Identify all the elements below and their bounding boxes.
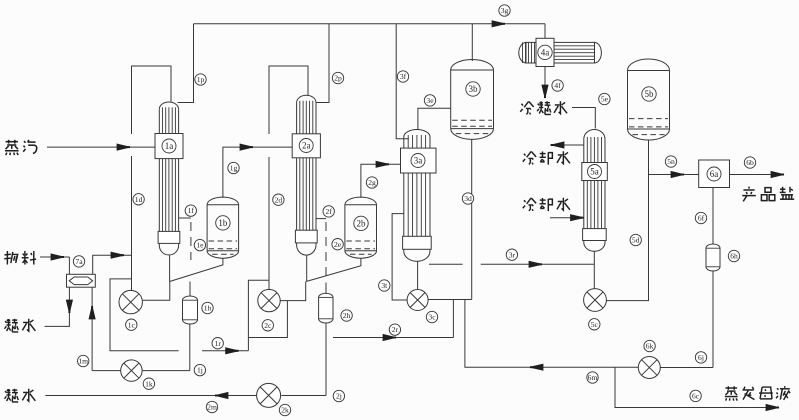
separator 5b bottom drop to pump 5c — [607, 140, 649, 301]
label 3d — [462, 193, 473, 204]
svg-text:2c: 2c — [264, 321, 272, 330]
arrow on vapor header to condenser — [492, 21, 505, 27]
pump 3c — [407, 290, 428, 311]
circulation loop column 2: pump 2c discharge riser — [269, 66, 308, 125]
label 4f — [552, 80, 563, 91]
svg-text:6k: 6k — [646, 342, 654, 351]
svg-text:2g: 2g — [368, 178, 376, 187]
text 冷却水 cooling water upper — [523, 151, 570, 164]
label 1g — [228, 162, 239, 173]
evaporator heater column 1a — [155, 102, 183, 255]
pump 2k — [257, 383, 281, 407]
branch from header to column 2a dome — [316, 24, 330, 103]
svg-text:5n: 5n — [667, 157, 675, 166]
3r arrow — [529, 261, 542, 267]
feed arrow 2 — [111, 252, 124, 258]
text 凝水 condensate lower — [4, 389, 35, 402]
label 3g — [499, 5, 510, 16]
label 1e — [194, 239, 205, 250]
circulation loop column 1: pump 1c discharge riser — [132, 66, 172, 125]
condenser 4a — [519, 38, 602, 66]
vapor line separator 2b to heater 3a — [361, 164, 401, 198]
stub into drum 2h — [325, 283, 327, 294]
label 2f — [323, 206, 334, 217]
separator 3b bottom drop — [471, 140, 473, 300]
crystallizer 6a bottom drop to drum 6h — [712, 188, 714, 245]
pump 1k condensate line — [92, 370, 121, 372]
vapor 1-2 arrow — [240, 144, 253, 150]
mother liquor recycle 6m line — [465, 300, 639, 368]
svg-text:7a: 7a — [75, 257, 83, 266]
label 2e — [332, 239, 343, 250]
condensate down arrow — [66, 300, 72, 313]
label 2c — [262, 320, 273, 331]
evaporated mother liquor outlet line — [615, 368, 779, 408]
label 7a — [73, 256, 84, 267]
label 1d — [133, 194, 144, 205]
label 2m — [206, 401, 217, 412]
pump 5c — [584, 289, 607, 312]
svg-text:2e: 2e — [334, 240, 342, 249]
label 2h — [341, 310, 352, 321]
drum 2h — [319, 293, 333, 323]
svg-text:3c: 3c — [428, 313, 436, 322]
svg-text:1j: 1j — [197, 366, 203, 375]
label 1j — [194, 364, 205, 375]
stub into drum 1h — [189, 282, 191, 297]
evaporator heater column 2a — [292, 95, 320, 255]
svg-text:6j: 6j — [698, 353, 704, 362]
svg-text:1r: 1r — [215, 339, 222, 348]
text 蒸发母液 evaporated mother liquor — [725, 386, 790, 401]
label 1k — [143, 378, 154, 389]
text 产品盐 product salt — [742, 187, 794, 202]
dash below steam crossing — [131, 156, 133, 165]
text 冷却水 cooling water lower — [523, 198, 570, 211]
column 3a bottom drop to pump 3c — [417, 262, 419, 290]
column 3a left drain to pump 3c — [392, 214, 407, 300]
mother liquor arrow — [766, 404, 779, 410]
svg-text:1h: 1h — [204, 304, 212, 313]
label 6h — [728, 250, 739, 261]
heated feed from 7a to loop 1 — [93, 255, 132, 274]
label 5n — [665, 156, 676, 167]
svg-text:1f: 1f — [188, 206, 195, 215]
pump 2c — [258, 289, 280, 311]
cooling water outlet line (upper) — [550, 144, 584, 146]
label 3c — [426, 311, 437, 322]
transfer line 2r riser into header A — [333, 337, 453, 339]
svg-text:5b: 5b — [645, 89, 655, 99]
cooling water out arrow — [551, 142, 564, 148]
label 3r — [506, 249, 517, 260]
svg-text:1e: 1e — [196, 241, 204, 250]
pump 2c suction riser — [280, 282, 306, 301]
preheater 7a — [67, 274, 96, 287]
svg-text:1m: 1m — [78, 357, 88, 366]
svg-text:1b: 1b — [218, 218, 228, 228]
label 2j — [333, 390, 344, 401]
cooling water inlet line (lower) — [550, 217, 584, 219]
text 凝水 condensate upper — [4, 319, 35, 332]
svg-text:3t: 3t — [381, 281, 388, 290]
svg-text:2d: 2d — [275, 195, 283, 204]
pump 1c suction riser — [143, 282, 170, 301]
svg-text:3a: 3a — [414, 156, 423, 166]
separator vessel 2b — [345, 197, 377, 258]
evaporator heater column 5a — [582, 130, 608, 252]
drum 2h bottom drop — [325, 323, 327, 396]
label 5d — [630, 234, 641, 245]
svg-text:3f: 3f — [400, 72, 407, 81]
drum 1h bottom drop — [189, 324, 191, 371]
label 3t — [379, 280, 390, 291]
svg-text:5e: 5e — [601, 95, 609, 104]
svg-text:6a: 6a — [710, 169, 719, 179]
svg-text:5a: 5a — [590, 167, 599, 177]
label 3e — [424, 95, 435, 106]
label 1h — [202, 302, 213, 313]
svg-text:3g: 3g — [501, 6, 509, 15]
text 蒸汽 steam — [5, 140, 37, 155]
crystallizer box 6a — [699, 160, 730, 188]
svg-text:5c: 5c — [591, 320, 599, 329]
label 1c — [126, 319, 137, 330]
svg-text:2b: 2b — [357, 219, 367, 229]
svg-text:2a: 2a — [302, 141, 311, 151]
svg-text:6b: 6b — [746, 158, 754, 167]
drum 1h — [183, 296, 198, 324]
svg-text:2h: 2h — [343, 311, 351, 320]
text 物料 feed — [4, 251, 36, 265]
separator 2b outlet diagonal to pump 2c — [306, 258, 361, 281]
vapor line separator 1b to heater 2a — [223, 147, 292, 198]
label 6j — [695, 352, 706, 363]
label 2g — [366, 177, 377, 188]
svg-text:5d: 5d — [632, 236, 640, 245]
vapor line column 5a top — [572, 108, 595, 129]
drum 6h bottom drop — [712, 271, 714, 368]
loop line down to pump 1c — [131, 165, 133, 291]
dash above steam crossing — [131, 125, 133, 134]
pump 3c discharge header line A — [428, 299, 472, 301]
drum 6h — [706, 244, 720, 271]
svg-text:4a: 4a — [541, 48, 550, 58]
dash below vapor crossing — [268, 157, 270, 166]
svg-text:4f: 4f — [554, 81, 561, 90]
branch: condenser 4a feed drop — [544, 24, 546, 40]
separator vessel 3b — [451, 60, 494, 140]
svg-text:3r: 3r — [509, 250, 516, 259]
label 1p — [195, 74, 206, 85]
6m arrow — [530, 364, 543, 370]
svg-text:6f: 6f — [698, 214, 705, 223]
feed arrow — [51, 254, 64, 260]
svg-text:6m: 6m — [588, 373, 598, 382]
label 6m — [587, 372, 598, 383]
branch from header down to column 3a circulation elbow — [396, 24, 409, 139]
svg-text:6h: 6h — [730, 252, 738, 261]
label 6b — [744, 157, 755, 168]
product salt outlet line — [730, 174, 785, 176]
separator vessel 5b — [628, 59, 670, 140]
column 5a bottom drop to pump 5c — [593, 252, 595, 289]
separator 1b bottom outlet and diagonal to pump 1c suction — [170, 258, 223, 281]
label 2d — [273, 194, 284, 205]
pump 6k suction from 6h drop — [660, 367, 713, 369]
evaporator heater column 3a — [401, 129, 437, 261]
svg-text:2f: 2f — [326, 207, 333, 216]
condensate down arrow 4f — [542, 85, 548, 98]
svg-text:2j: 2j — [336, 392, 342, 401]
column 2a bottom drop — [306, 255, 308, 281]
vapor 2-3 arrow — [376, 161, 389, 167]
label 3f — [397, 71, 408, 82]
product salt arrow — [771, 171, 784, 177]
top vapor header line B — [194, 23, 546, 25]
pump 1k — [121, 360, 142, 381]
2r arrow — [383, 334, 396, 340]
cooling water in arrow — [571, 215, 584, 221]
condensate out arrow — [215, 392, 228, 398]
label 6k — [644, 340, 655, 351]
column 2a condensate elbow with dashed 2e level line — [316, 218, 327, 220]
label 5e — [599, 93, 610, 104]
dash above vapor crossing — [268, 125, 270, 134]
svg-text:1c: 1c — [128, 320, 136, 329]
condensate outlet from 7a — [45, 287, 70, 326]
svg-text:2r: 2r — [392, 325, 399, 334]
separator vessel 1b — [207, 197, 239, 258]
bypass from pump 2c discharge down to 2r line — [248, 301, 287, 338]
svg-text:3d: 3d — [464, 194, 472, 203]
transfer line 3r to column 5a — [429, 263, 463, 265]
label 1m — [78, 355, 89, 366]
label 2r — [389, 324, 400, 335]
condensate header line with pump 2k — [45, 395, 256, 397]
label 5c — [589, 319, 600, 330]
column 1a bottom drop — [169, 255, 171, 281]
svg-text:1g: 1g — [230, 164, 238, 173]
label 6f — [695, 212, 706, 223]
svg-text:3b: 3b — [469, 84, 479, 94]
condenser 4a outlet drop — [544, 65, 546, 89]
branch: vessel 3b top riser — [471, 24, 473, 61]
svg-text:3e: 3e — [426, 96, 434, 105]
svg-text:2m: 2m — [207, 403, 217, 412]
transfer line 1r from loop 1 to loop 2 — [110, 279, 179, 351]
label 1f — [185, 205, 196, 216]
steam feed line into 1a — [47, 146, 155, 148]
svg-text:1p: 1p — [197, 75, 205, 84]
steam arrow — [117, 144, 130, 150]
pump 1c — [119, 290, 142, 313]
column 1a condensate elbow with dashed 1e level line — [179, 217, 191, 219]
slurry arrow 5n — [671, 171, 684, 177]
salt slurry line 5b to 6a — [649, 174, 699, 176]
text 冷凝水 condensed water — [520, 101, 567, 114]
svg-text:1k: 1k — [145, 379, 153, 388]
riser pump 1k to preheater 7a — [91, 287, 93, 370]
vapor line column 3a top to separator 3b side — [418, 108, 451, 129]
loop line down to pump 2c — [268, 166, 270, 290]
label 6c — [690, 390, 701, 401]
svg-text:1a: 1a — [165, 141, 174, 151]
pump 6k — [638, 357, 660, 379]
up arrow to 7a — [89, 306, 95, 319]
svg-text:1d: 1d — [135, 195, 143, 204]
label 2k — [279, 404, 290, 415]
branch from header to column 1a dome — [178, 24, 194, 103]
feed line into preheater 7a — [40, 256, 69, 258]
1r arrow — [226, 348, 239, 354]
svg-text:2k: 2k — [281, 406, 289, 415]
label 2p — [332, 72, 343, 83]
svg-text:6c: 6c — [692, 391, 700, 400]
svg-text:2p: 2p — [334, 74, 342, 83]
label 1r — [212, 338, 223, 349]
